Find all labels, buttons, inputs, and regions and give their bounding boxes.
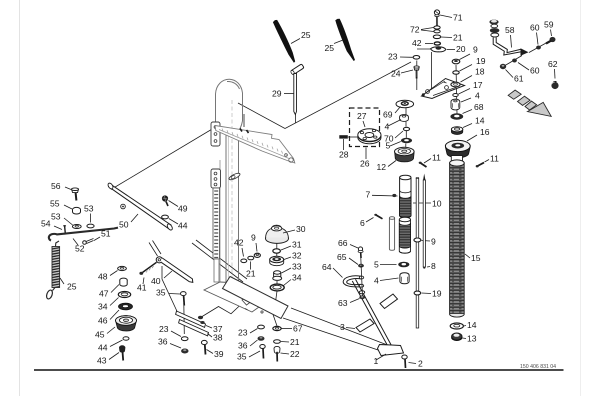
leader 46 <box>110 310 119 320</box>
bolt 2 <box>402 355 407 368</box>
svg-text:55: 55 <box>50 199 60 209</box>
leader 12 <box>388 161 396 167</box>
page frame right edge <box>580 0 582 396</box>
cup 12 <box>395 147 415 162</box>
mast foot plate <box>204 282 266 312</box>
leader 36 left <box>170 344 181 349</box>
washer 23 left <box>181 337 188 341</box>
leader 21 mid <box>250 262 252 270</box>
wire arm40 hub leader pair <box>149 241 161 257</box>
lever 50 top cap <box>107 182 114 190</box>
washer 48 <box>118 266 127 270</box>
washer 14 a <box>451 127 462 135</box>
ring 68 <box>450 113 463 119</box>
leader 15 <box>465 254 470 258</box>
svg-text:52: 52 <box>75 244 85 254</box>
leader 9 mid <box>256 243 257 252</box>
leader 8 <box>427 266 430 269</box>
leader 10 <box>413 202 431 204</box>
svg-text:50: 50 <box>119 220 129 230</box>
washer 60 b <box>512 59 517 63</box>
mast inner line <box>227 133 229 283</box>
leader 69 <box>395 107 401 114</box>
svg-text:41: 41 <box>137 283 147 293</box>
chain to 61 <box>505 56 522 66</box>
rail plate mid with holes <box>211 169 221 188</box>
bolt 24 <box>414 66 419 79</box>
leader 24 <box>401 70 413 73</box>
bolt 41 <box>139 262 156 275</box>
leader 36 mid <box>250 340 258 346</box>
leader 13 <box>463 337 467 340</box>
svg-text:5: 5 <box>374 260 379 270</box>
svg-text:60: 60 <box>530 66 540 76</box>
wire pin29 axis line <box>295 114 297 123</box>
dashed box 26 <box>350 108 380 147</box>
svg-text:40: 40 <box>151 276 161 286</box>
svg-text:48: 48 <box>98 272 108 282</box>
mast tube head <box>216 79 243 122</box>
svg-text:11: 11 <box>490 154 499 164</box>
washer 21 mid <box>248 256 254 260</box>
leader 47 <box>111 285 119 293</box>
leader 23 mid <box>250 329 258 334</box>
U-clamp end washers <box>359 276 363 279</box>
svg-text:42: 42 <box>234 238 244 248</box>
base plate tick <box>245 309 248 310</box>
leader 62 <box>554 69 557 79</box>
bushing 47 <box>120 278 127 286</box>
svg-text:17: 17 <box>473 80 483 90</box>
svg-text:23: 23 <box>388 52 398 62</box>
washer 21 low <box>274 340 281 344</box>
svg-text:60: 60 <box>530 23 540 33</box>
svg-text:65: 65 <box>337 252 347 262</box>
leader 1 <box>376 354 386 360</box>
rack strip lower plain <box>214 259 219 282</box>
blade 25 right <box>335 19 355 61</box>
leader 21 low <box>281 341 289 344</box>
bottom rule <box>34 369 564 371</box>
leader arrow to bolt 59 <box>529 43 547 53</box>
svg-text:10: 10 <box>432 199 442 209</box>
pipe 58 <box>493 38 520 56</box>
leg foot <box>378 345 404 356</box>
pin 11 b <box>476 163 484 168</box>
svg-text:26: 26 <box>360 159 370 169</box>
leader 14 b <box>464 325 466 328</box>
rod 52 <box>49 228 118 241</box>
washer 63 a <box>359 291 364 294</box>
leader 27 <box>363 121 365 127</box>
svg-text:32: 32 <box>292 251 302 261</box>
pin 6 <box>374 214 382 219</box>
leader 63 <box>350 299 360 303</box>
leader 41 <box>143 278 144 285</box>
washer 18 <box>451 82 460 87</box>
washer 23 top <box>413 56 420 60</box>
leader 53 left <box>64 218 73 225</box>
svg-text:46: 46 <box>98 316 108 326</box>
rack strip outline <box>213 188 220 259</box>
svg-text:51: 51 <box>101 229 111 239</box>
leader 14 a <box>463 124 472 128</box>
leader 22 <box>281 353 290 354</box>
svg-text:150 406 831 04: 150 406 831 04 <box>520 364 556 370</box>
svg-text:44: 44 <box>98 343 108 353</box>
leader 37 <box>206 326 212 329</box>
leader 55 <box>64 205 72 209</box>
rod 8 <box>423 174 425 269</box>
leader 72 <box>421 28 434 32</box>
washer 69 <box>396 100 414 108</box>
pin 11 a <box>419 162 427 167</box>
svg-text:28: 28 <box>339 150 349 160</box>
svg-text:61: 61 <box>514 74 524 84</box>
mast rail edge <box>219 160 221 282</box>
wire stack9-68 axis <box>456 65 457 114</box>
svg-text:66: 66 <box>338 238 348 248</box>
svg-text:4: 4 <box>475 91 480 101</box>
leader 7 <box>372 194 398 197</box>
leader 17 <box>459 89 471 95</box>
leader 64 <box>333 268 343 278</box>
leader 18 <box>461 76 473 83</box>
svg-text:56: 56 <box>51 181 61 191</box>
leader 31 <box>281 246 291 250</box>
svg-text:44: 44 <box>178 221 188 231</box>
ring 34 <box>118 292 130 298</box>
pin 29 cap <box>290 64 304 75</box>
svg-text:69: 69 <box>383 110 393 120</box>
svg-text:22: 22 <box>290 349 300 359</box>
ring 34 mid <box>270 284 284 291</box>
washer 42 top <box>434 42 440 45</box>
lever 50 bottom cap <box>166 223 173 231</box>
arm 40 <box>156 257 193 283</box>
rod 52 hook inner <box>51 236 52 239</box>
svg-text:35: 35 <box>237 352 247 362</box>
leader 4 top <box>461 98 471 102</box>
svg-text:39: 39 <box>214 349 224 359</box>
wire bolt35 axis <box>183 303 186 334</box>
bolt 39 <box>201 340 207 354</box>
leader 66 <box>350 245 358 249</box>
leader 48 <box>110 271 118 276</box>
leader 4 a <box>388 120 401 127</box>
leader 19 c <box>422 292 432 295</box>
svg-text:36: 36 <box>158 337 168 347</box>
pulley 16 <box>445 140 470 157</box>
nut 36 left <box>181 349 188 354</box>
arrow big <box>527 102 551 116</box>
bearing 5 a <box>401 138 412 143</box>
leader 28 to flange <box>348 136 358 138</box>
leader 9 top <box>460 54 471 60</box>
bolt 35 mid <box>260 345 265 359</box>
bolt 66 <box>358 247 363 258</box>
svg-text:53: 53 <box>84 204 94 214</box>
nut 4 a <box>400 115 409 122</box>
svg-text:9: 9 <box>431 237 436 247</box>
svg-text:9: 9 <box>251 233 256 243</box>
lever 50 boss hole <box>121 204 126 209</box>
ring 31 <box>273 249 281 253</box>
svg-text:21: 21 <box>453 33 463 43</box>
svg-text:24: 24 <box>391 69 401 79</box>
svg-text:19: 19 <box>432 289 442 299</box>
washer 60 a <box>536 46 541 50</box>
slot oval cutout <box>228 172 241 181</box>
arm wing bracket <box>215 126 295 164</box>
leader 28 <box>343 139 345 150</box>
washer 17 <box>453 94 458 97</box>
svg-text:11: 11 <box>432 153 441 163</box>
leader 58 <box>511 35 512 48</box>
rail plate upper with holes <box>211 122 220 146</box>
leader 16 <box>467 135 477 141</box>
svg-text:3: 3 <box>340 322 345 332</box>
washer 19 top <box>453 71 459 74</box>
svg-text:5: 5 <box>386 141 391 151</box>
wire stack69 axis <box>405 107 408 150</box>
base plate <box>223 277 289 319</box>
wire bolt23-24 axis to bracket <box>416 61 418 91</box>
wire V-leader elbow to washer23 right branch <box>285 62 411 129</box>
leader 33 <box>282 268 292 273</box>
bolt 22 <box>274 346 280 361</box>
washer 23 mid <box>258 325 265 329</box>
washer 67 <box>273 326 281 330</box>
arrow chip 1 <box>508 90 521 99</box>
svg-text:63: 63 <box>338 298 348 308</box>
wire gusset diagonal pair <box>192 240 247 282</box>
leader 42 mid <box>242 248 244 257</box>
leader 30 <box>283 230 295 233</box>
leader 70 <box>395 131 403 138</box>
svg-text:58: 58 <box>505 25 515 35</box>
base plate hole <box>261 311 263 313</box>
leader 20 <box>447 49 455 51</box>
svg-text:23: 23 <box>159 324 169 334</box>
washer 65 <box>358 264 364 268</box>
washer 44 lower <box>123 337 129 340</box>
svg-text:38: 38 <box>213 333 223 343</box>
leader 9 c <box>422 240 431 243</box>
leader 50 <box>131 214 138 222</box>
nut 13 <box>452 333 462 341</box>
wedge near leg <box>380 294 398 309</box>
svg-text:35: 35 <box>156 288 166 298</box>
arm screw a <box>240 129 242 132</box>
plug 28 <box>339 135 348 138</box>
small tube left <box>389 217 394 251</box>
bolt 35 left <box>181 292 187 306</box>
plate 38 <box>179 320 209 336</box>
leader 25 spring <box>60 278 64 284</box>
leader 59 <box>551 30 552 37</box>
mast tube body left <box>225 132 227 285</box>
blade 25 left <box>273 20 295 63</box>
mast tube body right <box>238 131 240 283</box>
pin 54 <box>63 225 66 235</box>
arm screw b <box>247 130 249 133</box>
rod A long <box>416 177 419 328</box>
tube 7 upper collar <box>400 175 411 218</box>
bolt 56 <box>72 188 79 201</box>
pipe arrowhead <box>521 48 529 56</box>
leader 35 left <box>169 293 180 296</box>
svg-text:34: 34 <box>292 273 302 283</box>
svg-text:33: 33 <box>292 262 302 272</box>
leader 40 <box>164 271 172 278</box>
wire leader lever50 to arm <box>111 127 216 190</box>
svg-text:62: 62 <box>548 59 558 69</box>
grease head <box>489 20 499 37</box>
leader 45 <box>107 327 115 334</box>
svg-text:14: 14 <box>467 320 477 330</box>
leader 51 <box>94 237 100 241</box>
nut 63 b <box>359 295 365 299</box>
nut 4 top <box>451 99 460 110</box>
nut 4 c <box>400 273 409 284</box>
U-clamp 64 <box>343 276 361 287</box>
washer 19 c <box>414 291 421 295</box>
leader 25 right <box>334 40 343 44</box>
svg-text:4: 4 <box>385 122 390 132</box>
leader 35 mid <box>249 351 260 357</box>
rack slots <box>214 191 218 258</box>
flange 27 <box>358 129 381 144</box>
leader 60 a <box>537 33 539 45</box>
nut 9 top <box>452 59 460 64</box>
svg-text:53: 53 <box>51 212 61 222</box>
svg-text:49: 49 <box>178 204 188 214</box>
bolt 49 <box>162 195 168 206</box>
pin 29 shaft <box>294 74 297 115</box>
plate 37 <box>176 311 206 327</box>
arm tip circle large <box>289 158 293 162</box>
leader 44 lower <box>110 340 123 347</box>
mast foot gusset wedge <box>242 293 257 306</box>
svg-text:36: 36 <box>238 341 248 351</box>
wire base plate to leg foot leader upper <box>291 308 390 346</box>
svg-text:54: 54 <box>41 219 51 229</box>
bolt 43 <box>119 345 125 360</box>
svg-text:18: 18 <box>475 67 485 77</box>
svg-text:71: 71 <box>453 13 463 23</box>
leader 11 a <box>424 159 431 164</box>
screw 15 body <box>450 156 465 318</box>
wire hub to plate37 leader <box>162 266 179 315</box>
svg-text:64: 64 <box>322 262 332 272</box>
nut 55 <box>73 207 81 214</box>
wire stack30 axis upper <box>276 244 278 303</box>
lever 50 bar <box>109 185 171 229</box>
nut 33 <box>273 271 282 281</box>
cyl 10 lower knurl <box>399 217 410 253</box>
leader 4 c <box>380 278 399 281</box>
svg-text:1: 1 <box>374 356 379 366</box>
svg-text:15: 15 <box>471 253 481 263</box>
washer 44 upper <box>162 215 169 219</box>
svg-text:19: 19 <box>476 56 486 66</box>
wire base plate to leg foot leader lower <box>283 318 384 352</box>
leader 56 <box>65 187 71 190</box>
svg-text:4: 4 <box>374 276 379 286</box>
svg-text:25: 25 <box>301 30 311 40</box>
svg-text:6: 6 <box>360 218 365 228</box>
svg-text:8: 8 <box>431 261 436 271</box>
leader 42 top <box>425 43 433 45</box>
spring 25 left coil <box>45 241 59 300</box>
cap nut 62 <box>551 82 558 90</box>
leader 23 top <box>400 56 413 58</box>
washer 70 <box>403 127 409 130</box>
svg-text:72: 72 <box>410 25 420 35</box>
leader 2 <box>409 363 417 364</box>
svg-text:47: 47 <box>99 289 109 299</box>
arrow chip 2 <box>518 96 531 105</box>
nipple on tube 7 <box>392 194 396 197</box>
mast neck curves <box>216 121 243 132</box>
washer 42 mid <box>241 259 247 263</box>
mast hidden center dashed <box>231 100 233 280</box>
leader 5 a <box>390 142 401 147</box>
page frame left edge <box>19 0 21 396</box>
leader 67 <box>282 328 293 330</box>
leader 6 <box>366 218 374 223</box>
washer 53 on rod <box>87 224 94 228</box>
svg-text:42: 42 <box>412 38 422 48</box>
tube 7 knurl band <box>400 196 411 218</box>
wedge 3 <box>356 319 374 332</box>
bolt 59 <box>546 37 556 44</box>
leader 43 <box>109 353 119 360</box>
arm tip circle small <box>285 154 288 157</box>
bearing 32 <box>270 256 284 265</box>
bearing 46 <box>119 303 133 310</box>
wire stack67 axis lower <box>273 313 278 326</box>
leader 21 top <box>441 36 452 39</box>
plate nuts <box>198 316 203 319</box>
leader 38 <box>208 334 213 338</box>
svg-text:20: 20 <box>456 44 466 54</box>
washer 14 b <box>450 323 463 329</box>
svg-text:12: 12 <box>377 162 387 172</box>
leader 61 <box>506 70 514 78</box>
wire anchor zigzag outline <box>201 296 270 318</box>
washer 53 left <box>72 225 81 229</box>
leader 3 <box>346 328 355 329</box>
nut 36 mid <box>258 336 265 341</box>
svg-text:27: 27 <box>357 111 367 121</box>
leader 5 c <box>380 264 397 266</box>
svg-text:7: 7 <box>366 190 371 200</box>
leg strut 1 <box>352 279 391 347</box>
leader 52 <box>73 239 78 246</box>
svg-text:31: 31 <box>292 240 302 250</box>
arrow chip 3 <box>525 101 537 110</box>
wire arm screws axis <box>243 114 245 127</box>
svg-text:59: 59 <box>544 20 554 30</box>
wire V-leader mast to bolt24 left branch <box>238 103 285 129</box>
leader 44 upper <box>169 219 178 225</box>
leader 71 <box>440 15 452 18</box>
arm fold tick hatching <box>222 129 287 157</box>
leader 29 <box>284 93 294 95</box>
svg-text:30: 30 <box>296 224 306 234</box>
